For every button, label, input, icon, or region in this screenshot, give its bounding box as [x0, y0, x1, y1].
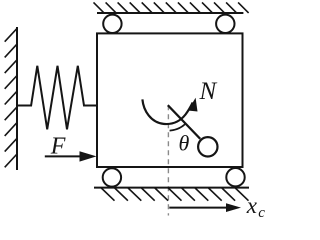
roller bottom-left — [103, 168, 121, 186]
coordinate arrow x_c shaft — [169, 207, 228, 209]
rotation arrow N head — [188, 98, 198, 112]
svg-text:θ: θ — [179, 131, 190, 156]
angle arc theta — [170, 124, 186, 131]
wall line — [16, 27, 18, 170]
roller top-left — [103, 15, 121, 33]
svg-text:F: F — [50, 134, 66, 160]
pendulum bob — [198, 137, 217, 156]
pendulum rod — [168, 105, 200, 139]
force F arrow shaft — [45, 155, 81, 157]
svg-text:N: N — [199, 78, 218, 105]
roller bottom-right — [226, 168, 244, 186]
dashed centerline — [167, 105, 169, 215]
block — [97, 33, 243, 167]
coordinate arrow x_c head — [226, 203, 241, 212]
roller top-right — [216, 15, 234, 33]
ceiling line — [97, 12, 243, 14]
wall hatching — [5, 28, 17, 167]
ceiling hatching — [94, 2, 249, 13]
svg-text:c: c — [258, 205, 265, 221]
rotation arrow N (curved shaft) — [142, 99, 192, 124]
force F arrow head — [80, 151, 97, 161]
spring — [17, 66, 97, 130]
ground hatching — [101, 188, 248, 201]
svg-text:x: x — [246, 193, 258, 218]
ground line — [94, 187, 249, 189]
